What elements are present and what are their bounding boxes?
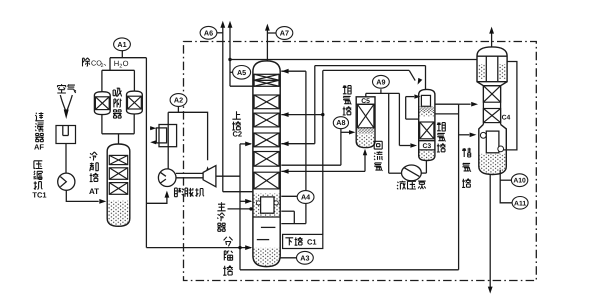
subcooler heat exchanger	[159, 125, 177, 147]
label: expander	[175, 188, 183, 197]
C5 packing	[357, 104, 374, 128]
svg-text:A5: A5	[237, 68, 246, 77]
svg-text:AT: AT	[89, 187, 99, 196]
svg-text:A3: A3	[300, 253, 309, 262]
C3 packing	[420, 122, 434, 139]
analysis point A5	[230, 71, 233, 73]
bottom long wire	[240, 269, 459, 271]
C4 bottom vessel	[479, 124, 507, 174]
A9 manifold	[365, 93, 367, 96]
cooling tower AT shell	[107, 144, 130, 226]
adsorber bottom manifold	[102, 133, 134, 135]
analysis point A10	[511, 174, 527, 187]
argon draw to C5 with A8	[281, 164, 341, 166]
label: remove CO2, H2O	[83, 58, 90, 67]
wire manifold down to C3 feed	[398, 93, 400, 145]
wire into C2 right	[281, 114, 323, 116]
analysis point A2	[170, 94, 187, 107]
C2 top vent with A7	[266, 29, 268, 61]
crude argon vapor return wire	[315, 65, 426, 67]
analysis point A8	[333, 117, 348, 129]
crude argon column C3 shell	[419, 89, 435, 160]
booster discharge riser	[167, 112, 169, 169]
N2 vent line with A6	[222, 26, 224, 192]
svg-text:C2: C2	[233, 130, 243, 139]
exchanger stub out	[152, 141, 156, 143]
svg-text:C1: C1	[307, 237, 317, 246]
label: lower column C1 box	[283, 234, 323, 248]
analysis point A3	[280, 257, 296, 259]
analysis point A6	[217, 32, 223, 34]
C3 condenser tube	[421, 95, 430, 106]
expander shaft	[176, 172, 203, 174]
C3 to C4 wires	[435, 103, 459, 105]
label: filter AF	[35, 112, 44, 121]
reflux argon riser	[388, 93, 390, 173]
adsorber vessel right	[127, 91, 143, 114]
wire AT top	[118, 134, 120, 144]
air inlet funnel arrow	[60, 95, 65, 111]
liquid pump	[402, 165, 422, 181]
label: adsorber	[113, 88, 122, 96]
C5 bottoms return wire	[281, 170, 365, 172]
main condenser (zhulengqi)	[254, 194, 280, 217]
condenser right loop wire	[504, 62, 517, 150]
label: air (kongqi)	[57, 84, 66, 93]
C3 condenser feed loop	[405, 97, 407, 120]
adsorber vessel left	[94, 92, 110, 115]
wire to booster inlet	[146, 193, 167, 204]
svg-text:A2: A2	[174, 96, 183, 105]
main column shell (C2/C1)	[253, 61, 280, 267]
C3 condenser liquid band	[420, 106, 434, 112]
A1 header	[110, 57, 146, 59]
wire into C2 top right	[281, 70, 306, 72]
C4 sump liquid	[480, 154, 506, 174]
svg-text:C3: C3	[422, 143, 431, 150]
label: fractionating column	[224, 237, 233, 247]
C5 distributor band	[357, 128, 374, 134]
svg-text:、: 、	[104, 59, 111, 68]
adsorber top manifold	[101, 70, 103, 91]
C3 sump	[419, 151, 434, 160]
svg-text:A7: A7	[280, 29, 289, 38]
liquid air feed to C1	[146, 247, 251, 249]
label: pure argon column	[462, 148, 471, 157]
wire to A10/A11	[500, 170, 512, 203]
label: crude argon column (C3)	[437, 122, 446, 131]
booster (expander brake)	[158, 169, 176, 187]
compressor TC1	[58, 173, 75, 190]
analysis point A1	[114, 38, 131, 51]
svg-text:C4: C4	[502, 114, 511, 121]
wire compressor->AT tower	[66, 190, 98, 201]
pump discharge wire	[389, 172, 402, 174]
C1 liquid sump	[254, 248, 280, 266]
cold box boundary (dash-dot)	[184, 42, 537, 281]
bridge wire to expander (A2 tap)	[168, 112, 207, 160]
label: main condenser	[217, 202, 225, 211]
leader line to condenser	[228, 208, 252, 210]
pump suction from C3	[425, 160, 427, 173]
label: liquid pump	[397, 181, 406, 190]
label: crude argon column (C5)	[343, 85, 352, 94]
crude argon column C5 shell	[356, 97, 375, 148]
C3 vent drop	[425, 66, 427, 90]
vent line 2	[229, 26, 231, 86]
C3 label box	[419, 140, 435, 142]
product line down	[489, 175, 491, 288]
svg-text:A4: A4	[301, 193, 310, 202]
label: reflux argon	[374, 141, 382, 149]
expander outlet wire to C2	[216, 175, 240, 177]
C2 top packing (double)	[254, 74, 279, 86]
svg-text:AF: AF	[34, 142, 44, 151]
svg-text:A1: A1	[117, 40, 126, 49]
branch into main condenser	[240, 200, 251, 202]
svg-text:A11: A11	[514, 200, 526, 207]
AT liquid sump	[108, 201, 129, 226]
svg-text:TC1: TC1	[32, 191, 46, 200]
AT packing sections	[109, 155, 127, 164]
step wire	[281, 210, 294, 212]
filter AF	[56, 126, 76, 144]
bypass line right of adsorbers (long vertical)	[145, 58, 147, 248]
analysis point A9	[373, 75, 390, 88]
C4 column packing	[483, 86, 500, 103]
C4 reboiler coil	[486, 131, 499, 153]
svg-text:A6: A6	[204, 28, 213, 37]
svg-text:A8: A8	[336, 118, 345, 127]
wire filter->compressor	[65, 144, 67, 174]
expander turbine	[203, 166, 216, 187]
C4 top condenser vessel	[477, 47, 507, 86]
label: upper column C2	[232, 111, 240, 119]
long top wire to argon condenser	[230, 59, 477, 61]
label: compressor TC1	[34, 161, 42, 169]
svg-text:A10: A10	[513, 178, 526, 185]
analysis point A11	[512, 197, 528, 210]
wire A4 down leg	[305, 204, 307, 224]
analysis point A4	[281, 195, 297, 197]
svg-text:O: O	[123, 59, 129, 68]
analysis point A7	[276, 27, 293, 40]
long wire up to C4	[458, 104, 460, 270]
label: cooling tower AT	[90, 152, 98, 161]
C1 trays	[261, 226, 276, 228]
main riser x240	[239, 144, 241, 270]
C4 vent arrow	[491, 33, 493, 47]
exchanger stub in	[150, 127, 152, 129]
argon feed wire to C3 dome	[323, 69, 409, 71]
C5 sump	[357, 134, 374, 146]
C2 packing sections	[254, 95, 279, 109]
branch into C4 reboiler	[459, 134, 470, 136]
svg-text:A9: A9	[376, 77, 385, 86]
